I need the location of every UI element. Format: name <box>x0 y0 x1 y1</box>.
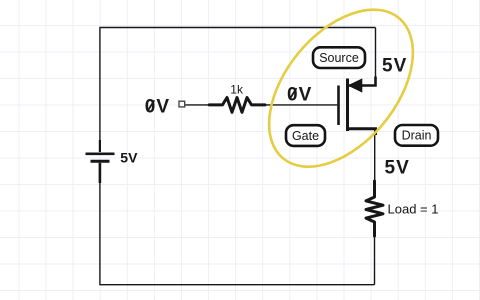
svg-text:1k: 1k <box>230 83 244 97</box>
annotation: 5V at drain <box>385 158 410 179</box>
battery V1 top lead (bold stub) <box>99 140 101 152</box>
wire: terminal to resistor R1 <box>185 104 209 106</box>
wire: left rail from battery to bottom rail <box>99 183 101 285</box>
label box: Drain <box>395 125 438 146</box>
resistor R2 (Load) zigzag vertical <box>366 181 383 236</box>
resistor R2 value label Load = 1 <box>388 202 439 217</box>
resistor R1 value label 1k <box>230 83 244 97</box>
svg-text:5V: 5V <box>385 158 410 179</box>
transistor Q1 drain lead <box>349 129 376 135</box>
svg-text:Source: Source <box>319 51 359 65</box>
svg-text:Drain: Drain <box>402 129 432 143</box>
wire: top rail from left rail to source rail <box>99 27 375 29</box>
svg-text:0V: 0V <box>145 96 170 117</box>
wire: drain down to load resistor <box>374 134 376 182</box>
battery V1 negative (short) plate <box>91 160 110 163</box>
svg-text:Load = 1: Load = 1 <box>388 202 439 217</box>
annotation: 0V at gate <box>287 84 312 105</box>
label box: Gate <box>286 125 325 146</box>
svg-text:5V: 5V <box>382 56 407 77</box>
wire: left rail down to battery top plate <box>99 28 101 153</box>
battery V1 bottom lead (bold stub) <box>99 163 102 183</box>
annotation: 0V at input terminal <box>145 96 170 117</box>
wire: bottom rail <box>99 284 374 286</box>
transistor Q1 source lead with arrow <box>349 77 376 92</box>
svg-text:Gate: Gate <box>292 129 319 143</box>
wire: resistor R1 to transistor gate <box>265 104 337 106</box>
node: input terminal square (0V source pin) <box>179 101 185 107</box>
label box: Source <box>313 47 365 68</box>
svg-text:0V: 0V <box>287 84 312 105</box>
highlight ellipse around transistor <box>241 0 442 194</box>
wire: top rail down to source <box>375 28 377 81</box>
battery V1 value label 5V <box>120 150 138 166</box>
transistor Q1 channel bar <box>346 79 349 132</box>
wire: load resistor to bottom rail <box>374 236 376 285</box>
resistor R1 (1k) zigzag <box>209 98 265 113</box>
svg-text:5V: 5V <box>120 150 138 166</box>
annotation: 5V at source <box>382 56 407 77</box>
transistor Q1 (P-MOSFET) gate bar <box>337 86 340 126</box>
battery V1 positive (long) plate <box>86 153 115 156</box>
